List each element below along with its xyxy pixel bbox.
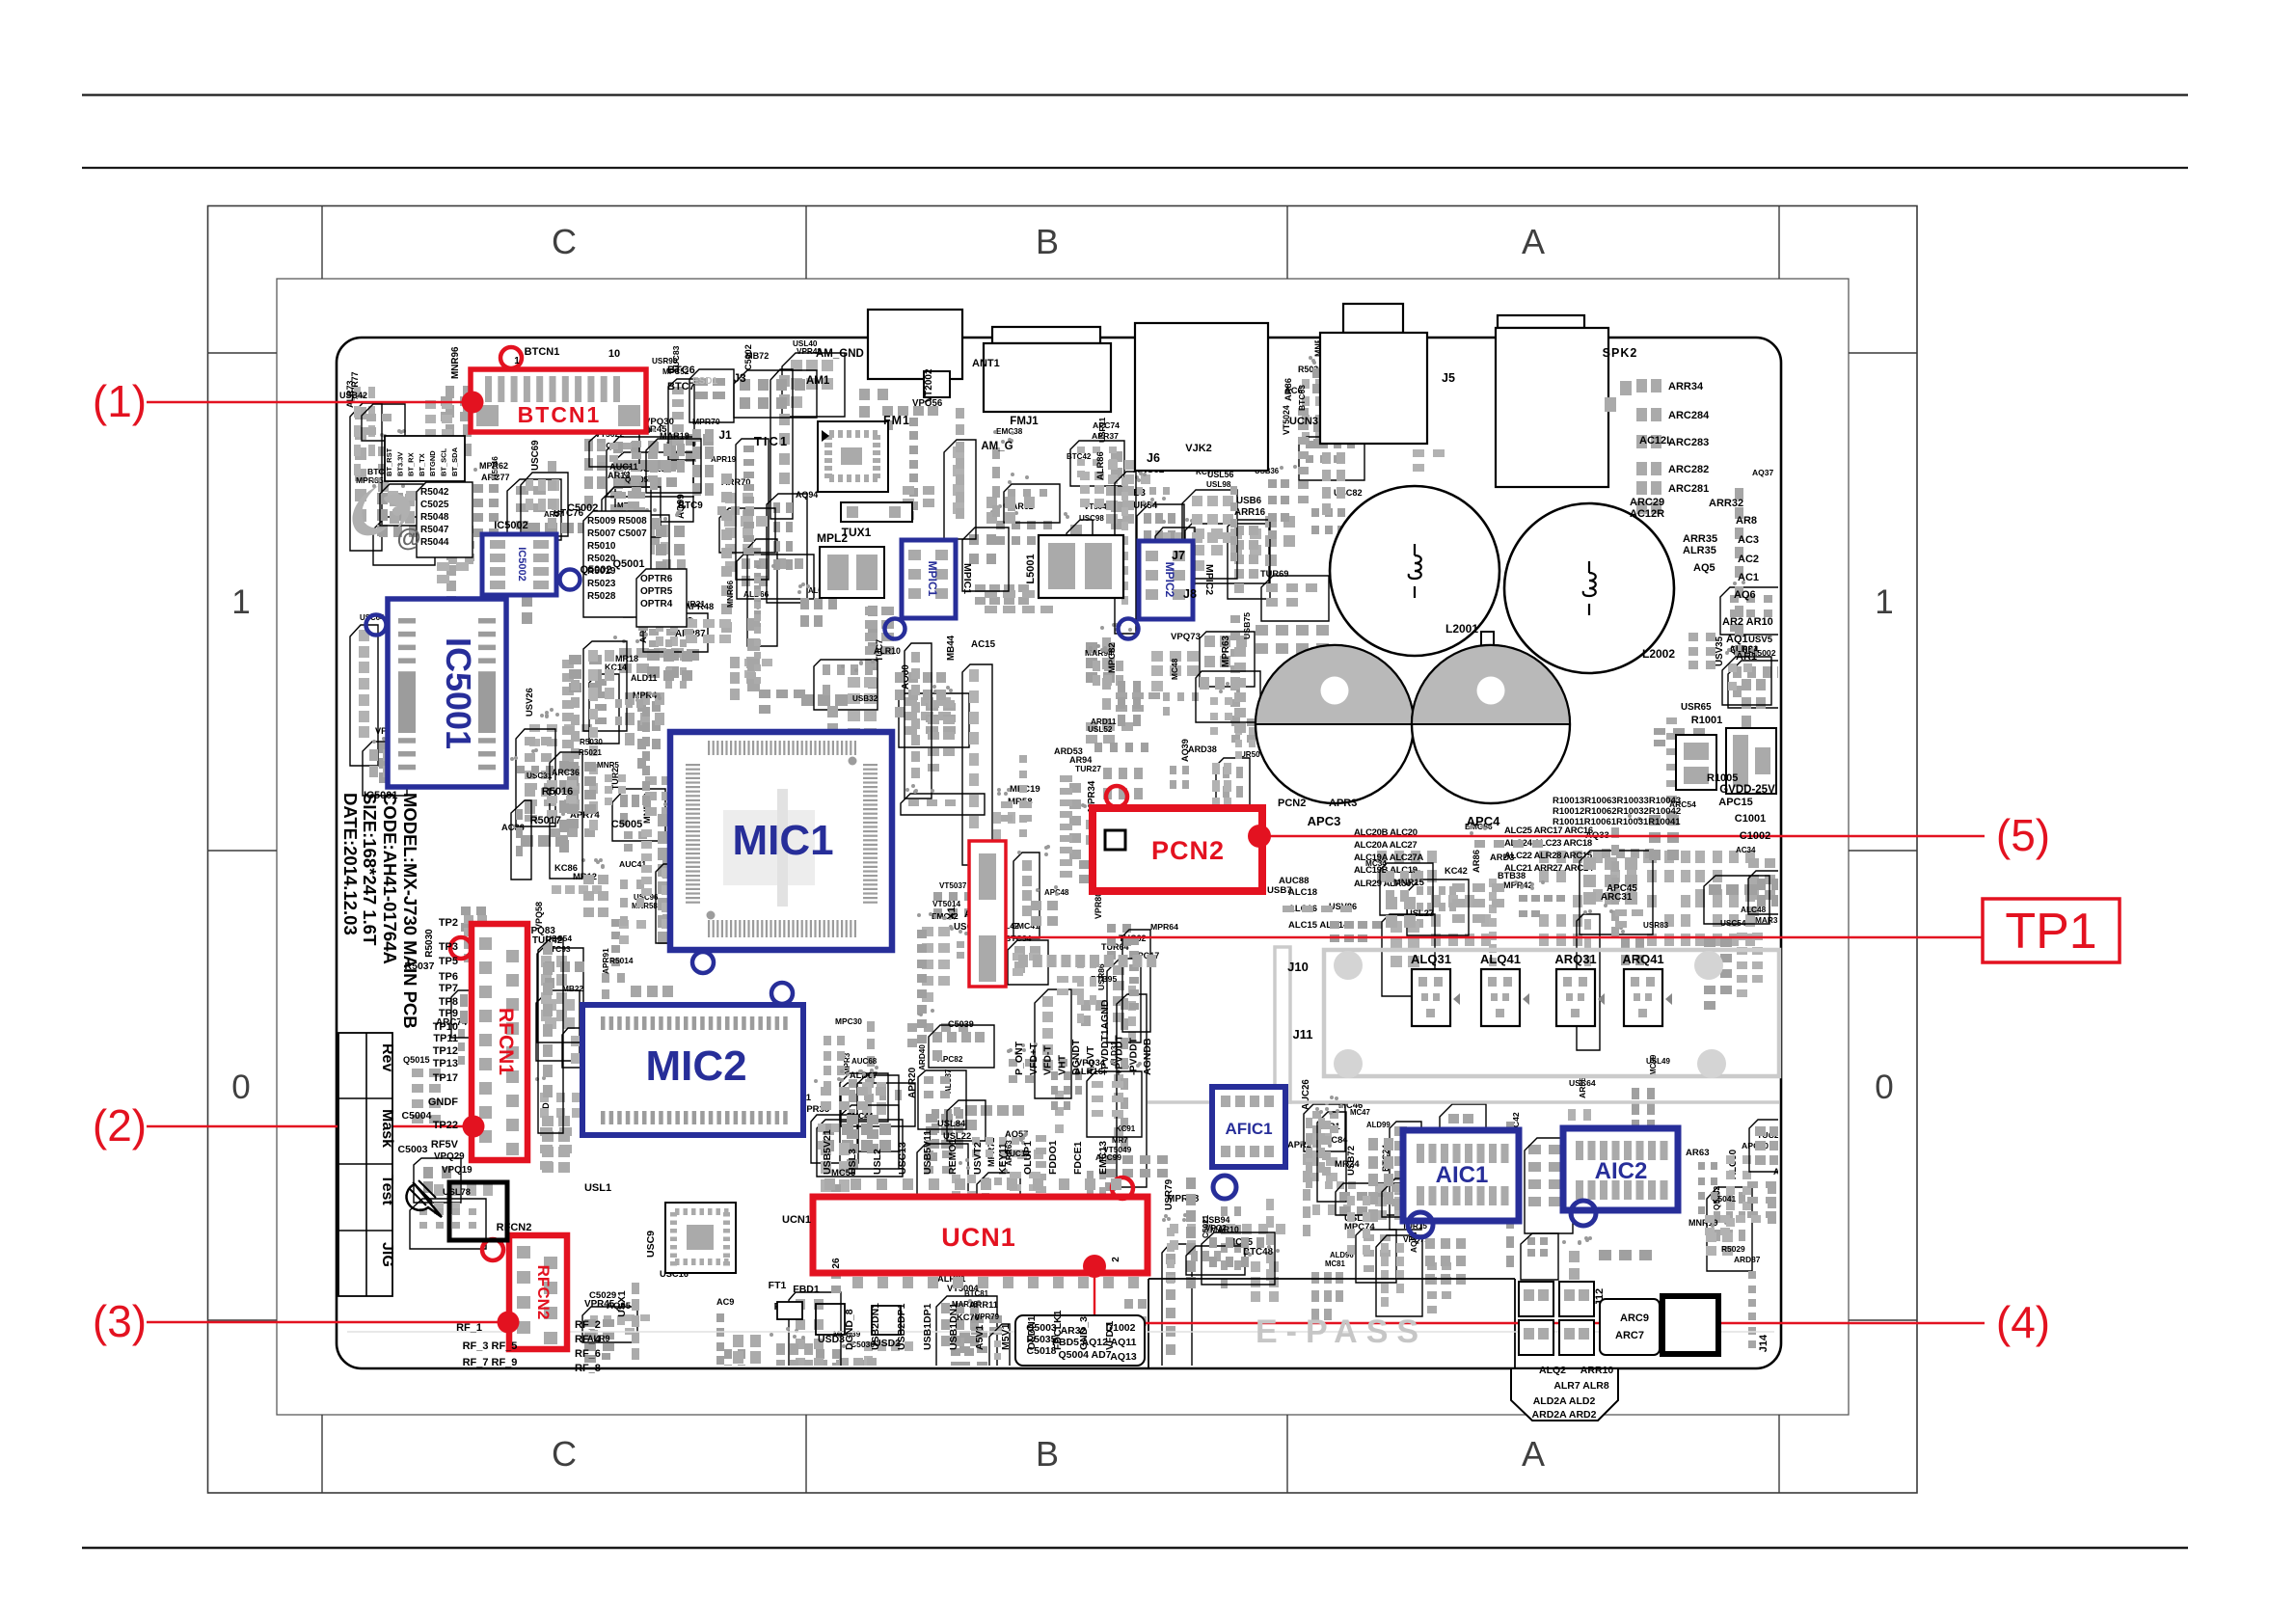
svg-text:C5002: C5002 xyxy=(567,502,598,514)
IC USC9 QFP xyxy=(665,1203,736,1273)
svg-text:R5016: R5016 xyxy=(542,786,573,798)
svg-text:AQ6: AQ6 xyxy=(1734,589,1756,601)
svg-text:J11: J11 xyxy=(1293,1027,1313,1042)
svg-text:MPL2: MPL2 xyxy=(817,531,848,545)
svg-text:(1): (1) xyxy=(93,376,147,426)
board silkscreen step line xyxy=(1148,1278,1515,1280)
svg-text:P_ONT: P_ONT xyxy=(1013,1041,1025,1075)
svg-text:ALD99: ALD99 xyxy=(1366,1121,1391,1129)
svg-text:10: 10 xyxy=(608,348,620,360)
keepout cone symbol xyxy=(407,1184,442,1217)
svg-text:ALC22 ALR28 ARC15: ALC22 ALR28 ARC15 xyxy=(1504,851,1593,861)
svg-text:OPTR4: OPTR4 xyxy=(640,599,673,609)
svg-text:MIC1: MIC1 xyxy=(732,817,833,864)
IC AIC1 xyxy=(1403,1130,1519,1221)
svg-text:AQ5: AQ5 xyxy=(1693,562,1715,574)
svg-text:USV5: USV5 xyxy=(1748,635,1773,645)
svg-text:AR86: AR86 xyxy=(1471,850,1481,873)
svg-text:0: 0 xyxy=(1875,1069,1893,1106)
svg-text:ARC284: ARC284 xyxy=(1668,410,1710,421)
svg-text:ARC36: ARC36 xyxy=(552,768,580,777)
svg-text:J1: J1 xyxy=(718,428,732,442)
svg-text:USB7: USB7 xyxy=(1267,885,1292,896)
svg-text:VHT: VHT xyxy=(1056,1054,1067,1075)
callout 5 leader line xyxy=(1259,835,1985,837)
connector RFCN1 red box xyxy=(472,924,527,1160)
AFIC1 pin circle xyxy=(1213,1176,1236,1199)
TP1 label box xyxy=(1983,899,2120,962)
svg-text:C1001: C1001 xyxy=(1735,813,1766,825)
svg-text:R5048: R5048 xyxy=(420,512,449,523)
svg-text:R5010: R5010 xyxy=(587,541,616,552)
svg-text:C: C xyxy=(552,222,577,261)
svg-text:ALQ41: ALQ41 xyxy=(1480,952,1521,966)
svg-text:BTC42: BTC42 xyxy=(1067,452,1092,461)
svg-text:MPR62: MPR62 xyxy=(479,461,508,471)
shield box bottom right xyxy=(1662,1296,1718,1354)
MPIC2 pin circle xyxy=(1119,619,1139,639)
svg-text:R5030: R5030 xyxy=(424,929,435,958)
svg-text:MNR5: MNR5 xyxy=(597,761,619,770)
PCB board outline xyxy=(337,338,1781,1368)
svg-text:USR83: USR83 xyxy=(1643,921,1669,930)
capacitor APC3 half-shaded circle xyxy=(1256,645,1414,803)
svg-text:OPTR5: OPTR5 xyxy=(640,586,673,597)
svg-text:TP5: TP5 xyxy=(439,956,458,967)
svg-text:C5003: C5003 xyxy=(398,1144,428,1155)
svg-text:R5042: R5042 xyxy=(420,487,449,498)
svg-text:C5025: C5025 xyxy=(420,500,449,510)
svg-text:FDDO1: FDDO1 xyxy=(1047,1140,1059,1175)
svg-text:VFD+T: VFD+T xyxy=(1028,1042,1040,1075)
svg-text:USB94: USB94 xyxy=(1202,1215,1229,1225)
MIC1 pin circle b xyxy=(771,983,793,1004)
zone tick marks right strip xyxy=(1849,352,1917,354)
svg-text:AR63: AR63 xyxy=(1686,1148,1710,1158)
svg-text:TP1: TP1 xyxy=(2005,904,2096,960)
svg-text:MC81: MC81 xyxy=(1325,1259,1345,1268)
svg-text:ARQ41: ARQ41 xyxy=(1622,952,1663,966)
callout 1 dot xyxy=(462,392,484,414)
svg-text:REMO1: REMO1 xyxy=(947,1139,959,1176)
svg-text:PCN2: PCN2 xyxy=(1278,798,1306,809)
svg-text:UCN1: UCN1 xyxy=(941,1223,1016,1252)
svg-text:R1005: R1005 xyxy=(1707,772,1738,784)
svg-text:(4): (4) xyxy=(1996,1297,2050,1347)
svg-text:VFD-T: VFD-T xyxy=(1042,1045,1054,1075)
transformer MPL2 xyxy=(820,547,884,598)
svg-text:A5V1: A5V1 xyxy=(974,1325,986,1350)
svg-text:BTCN1: BTCN1 xyxy=(518,402,602,427)
svg-text:APR48: APR48 xyxy=(685,601,714,611)
svg-text:OLUP1: OLUP1 xyxy=(1022,1141,1034,1175)
svg-text:MNR66: MNR66 xyxy=(725,580,735,608)
svg-text:TP22: TP22 xyxy=(433,1120,458,1131)
svg-text:C: C xyxy=(552,1434,577,1474)
svg-text:USC9: USC9 xyxy=(645,1231,657,1258)
svg-text:ARC77: ARC77 xyxy=(481,473,510,482)
svg-text:AC15: AC15 xyxy=(971,639,996,650)
svg-text:R5037: R5037 xyxy=(405,961,435,972)
connector SPK2 xyxy=(1496,328,1608,487)
IC TIC1 QFP xyxy=(818,421,888,492)
svg-text:USL52: USL52 xyxy=(1088,725,1113,734)
IC AFIC1 xyxy=(1212,1087,1285,1167)
inner drawing frame xyxy=(277,279,1849,1415)
svg-text:AM_G: AM_G xyxy=(981,441,1013,452)
svg-text:@: @ xyxy=(396,523,420,552)
svg-text:J14: J14 xyxy=(1758,1334,1769,1352)
svg-text:MC48: MC48 xyxy=(1170,658,1179,680)
svg-text:J10: J10 xyxy=(1287,960,1309,974)
svg-text:VT5037: VT5037 xyxy=(939,881,967,890)
J12 pad squares xyxy=(1519,1282,1553,1316)
svg-text:RF_7 RF_9: RF_7 RF_9 xyxy=(463,1357,518,1368)
svg-text:AC2: AC2 xyxy=(1738,554,1759,565)
svg-text:BTGND: BTGND xyxy=(428,450,437,476)
svg-text:A: A xyxy=(1522,222,1545,261)
svg-text:(3): (3) xyxy=(93,1296,147,1346)
svg-text:RFCN1: RFCN1 xyxy=(495,1008,517,1075)
BTCN1 pin1 circle xyxy=(500,347,522,368)
svg-text:Test: Test xyxy=(379,1175,395,1205)
svg-text:ALR35: ALR35 xyxy=(1683,545,1716,556)
TP1 leader line xyxy=(1006,936,1983,938)
svg-text:FDCLK1: FDCLK1 xyxy=(1052,1310,1064,1350)
svg-text:(5): (5) xyxy=(1996,810,2050,860)
RFCN1 pin1 circle xyxy=(450,937,472,959)
svg-text:ARC283: ARC283 xyxy=(1668,437,1709,448)
svg-text:R5023: R5023 xyxy=(587,579,616,589)
svg-text:ALC18: ALC18 xyxy=(1288,887,1317,898)
svg-text:TP10: TP10 xyxy=(433,1021,458,1033)
svg-text:ALD2A ALD2: ALD2A ALD2 xyxy=(1533,1395,1596,1407)
svg-text:MAR10: MAR10 xyxy=(1210,1225,1239,1234)
svg-text:AR13: AR13 xyxy=(608,471,631,480)
svg-text:USX1: USX1 xyxy=(616,1290,628,1317)
svg-text:(2): (2) xyxy=(93,1100,147,1150)
svg-text:VT2002: VT2002 xyxy=(924,368,934,402)
svg-text:MC34: MC34 xyxy=(1365,859,1387,868)
svg-text:RFCN2: RFCN2 xyxy=(534,1265,553,1320)
crystal X1 red box xyxy=(969,841,1006,987)
connector FMJ1 xyxy=(984,343,1111,412)
callout 5 dot xyxy=(1248,825,1271,848)
svg-text:MIC2: MIC2 xyxy=(645,1042,746,1090)
svg-text:USC98: USC98 xyxy=(1079,514,1104,523)
connector SPK2 tab xyxy=(1498,315,1584,328)
svg-text:R10013R10063R10033R10043: R10013R10063R10033R10043 xyxy=(1553,796,1681,806)
svg-text:R5028: R5028 xyxy=(587,591,616,602)
callout 2 dot xyxy=(463,1116,485,1138)
svg-text:APC45: APC45 xyxy=(1607,883,1637,894)
svg-text:ALR10: ALR10 xyxy=(874,646,901,656)
svg-text:SPK2: SPK2 xyxy=(1603,346,1638,360)
svg-text:TP11: TP11 xyxy=(433,1033,458,1044)
svg-text:USL2: USL2 xyxy=(872,1149,883,1175)
svg-text:MPR64: MPR64 xyxy=(1150,922,1178,932)
R1001 block xyxy=(1676,735,1716,790)
IC IC5002 xyxy=(482,534,556,595)
svg-text:RF_1: RF_1 xyxy=(456,1322,482,1334)
svg-text:APC4: APC4 xyxy=(1467,814,1500,828)
svg-text:RF_3 RF_5: RF_3 RF_5 xyxy=(463,1340,518,1352)
bottom page rule xyxy=(82,1547,2188,1550)
svg-text:USD2: USD2 xyxy=(874,1338,901,1349)
svg-text:APR19: APR19 xyxy=(711,455,737,464)
svg-text:EMC38: EMC38 xyxy=(996,427,1023,436)
connector FMJ1 tab xyxy=(992,327,1100,343)
svg-text:KC86: KC86 xyxy=(554,862,578,873)
svg-text:TP17: TP17 xyxy=(433,1072,458,1084)
svg-text:BTC81: BTC81 xyxy=(964,1289,989,1298)
svg-text:X1: X1 xyxy=(946,907,958,919)
svg-text:BT_RX: BT_RX xyxy=(407,452,416,476)
svg-text:USC69: USC69 xyxy=(530,440,541,471)
svg-text:1: 1 xyxy=(1875,583,1893,621)
svg-text:MPIC2: MPIC2 xyxy=(1203,564,1215,595)
svg-text:TP9: TP9 xyxy=(439,1008,458,1019)
svg-text:MODEL:MX-J730 MAIN PCB: MODEL:MX-J730 MAIN PCB xyxy=(400,793,420,1029)
svg-text:MAR19: MAR19 xyxy=(660,431,689,441)
svg-text:USV26: USV26 xyxy=(524,688,534,717)
svg-text:USC54: USC54 xyxy=(1720,919,1746,928)
svg-text:AQ37: AQ37 xyxy=(1752,468,1773,477)
svg-text:ARD11: ARD11 xyxy=(1091,717,1117,726)
svg-text:1: 1 xyxy=(231,583,250,621)
svg-text:BTCN1: BTCN1 xyxy=(525,346,560,358)
svg-text:EMC13: EMC13 xyxy=(1097,1141,1109,1175)
IC5001 pin1 circle xyxy=(366,615,387,636)
svg-text:L5001: L5001 xyxy=(1025,554,1037,583)
callout 3 dot xyxy=(498,1312,520,1334)
svg-text:BTC6: BTC6 xyxy=(667,365,695,376)
AIC1 pin circle xyxy=(1408,1212,1433,1237)
svg-text:ARD87: ARD87 xyxy=(1734,1255,1761,1264)
IC IC5001 xyxy=(388,599,506,787)
callout 3 leader line xyxy=(147,1321,508,1323)
svg-text:GND_3: GND_3 xyxy=(1078,1316,1090,1350)
shield can square xyxy=(449,1182,507,1240)
svg-text:ARR10: ARR10 xyxy=(1580,1365,1614,1376)
svg-text:ARD3: ARD3 xyxy=(1490,852,1515,862)
zone tick marks left strip xyxy=(208,352,278,354)
svg-text:ESD1: ESD1 xyxy=(692,376,718,387)
svg-text:Rev: Rev xyxy=(379,1043,395,1071)
svg-text:TIC1: TIC1 xyxy=(754,434,789,448)
pad grid arrays below capacitors xyxy=(1377,851,1387,863)
svg-text:ALR86: ALR86 xyxy=(1094,451,1105,480)
svg-text:MPR42: MPR42 xyxy=(1503,880,1533,890)
svg-text:AC12L: AC12L xyxy=(1639,435,1673,447)
svg-text:R5029: R5029 xyxy=(1721,1244,1745,1254)
svg-text:USB42: USB42 xyxy=(339,391,367,400)
svg-text:BT3.3V: BT3.3V xyxy=(395,452,404,476)
svg-text:AQ13: AQ13 xyxy=(1110,1351,1137,1363)
svg-text:VFD-1: VFD-1 xyxy=(1104,1321,1116,1350)
svg-text:R10011R10061R10031R10041: R10011R10061R10031R10041 xyxy=(1553,817,1681,827)
svg-text:AR8: AR8 xyxy=(1736,515,1757,527)
UCN1 pin1 circle xyxy=(1112,1177,1133,1199)
board bottom tab outline J13 xyxy=(1511,1368,1618,1421)
svg-text:USC64: USC64 xyxy=(1569,1078,1596,1088)
svg-text:J6: J6 xyxy=(1147,451,1160,465)
component pad texture field xyxy=(610,491,622,499)
svg-text:1: 1 xyxy=(514,356,520,366)
svg-text:MPC82: MPC82 xyxy=(1107,642,1118,673)
svg-text:GVDD-25V: GVDD-25V xyxy=(1719,784,1775,796)
svg-text:USC13: USC13 xyxy=(897,1142,908,1175)
svg-text:MPIC1: MPIC1 xyxy=(961,563,973,594)
svg-text:ALC20A ALC27: ALC20A ALC27 xyxy=(1354,840,1417,851)
svg-text:IC5002: IC5002 xyxy=(516,547,527,581)
svg-text:MPIC2: MPIC2 xyxy=(1163,562,1176,598)
svg-text:OLDN1: OLDN1 xyxy=(1026,1315,1038,1350)
svg-text:BT_TX: BT_TX xyxy=(418,453,426,476)
IC MIC2 xyxy=(582,1005,803,1135)
svg-text:AC9: AC9 xyxy=(716,1297,734,1307)
svg-text:KEY11: KEY11 xyxy=(997,1143,1009,1175)
svg-text:FM1: FM1 xyxy=(883,414,910,427)
svg-text:USB1DP1: USB1DP1 xyxy=(922,1303,933,1350)
connector UCN1 red box xyxy=(813,1197,1148,1273)
svg-text:KC42: KC42 xyxy=(1445,866,1468,876)
svg-text:BTC63: BTC63 xyxy=(1297,385,1307,411)
svg-text:USL1: USL1 xyxy=(584,1182,611,1194)
callout 2 leader line xyxy=(147,1125,473,1127)
svg-text:TP2: TP2 xyxy=(439,917,458,929)
svg-text:AGNDB: AGNDB xyxy=(1142,1038,1153,1075)
RFCN2 pin1 circle xyxy=(482,1239,503,1260)
connector J5 xyxy=(1320,333,1427,444)
svg-text:OPTR6: OPTR6 xyxy=(640,574,673,584)
svg-text:J8: J8 xyxy=(1183,587,1197,601)
svg-text:L2002: L2002 xyxy=(1642,647,1675,661)
svg-text:TP8: TP8 xyxy=(439,996,458,1008)
svg-text:ARC9: ARC9 xyxy=(1620,1313,1649,1324)
connector AM_GND J3 xyxy=(868,310,962,379)
svg-text:AC12R: AC12R xyxy=(1630,508,1664,520)
svg-text:USVT2: USVT2 xyxy=(972,1142,984,1175)
svg-text:B: B xyxy=(1036,222,1059,261)
capacitor APC4 half-shaded circle xyxy=(1412,645,1570,803)
svg-text:ARD38: ARD38 xyxy=(1188,744,1217,754)
svg-text:J5: J5 xyxy=(1442,371,1455,385)
svg-text:J3: J3 xyxy=(733,371,746,385)
svg-text:R5009 R5008: R5009 R5008 xyxy=(587,516,647,527)
svg-text:ALC19A ALC27A: ALC19A ALC27A xyxy=(1354,853,1423,863)
svg-text:AIC1: AIC1 xyxy=(1436,1162,1489,1188)
svg-text:ARR32: ARR32 xyxy=(1709,498,1743,509)
svg-text:R5030: R5030 xyxy=(580,738,603,746)
connector RFCN2 red box xyxy=(509,1235,567,1349)
svg-text:AIC2: AIC2 xyxy=(1595,1158,1648,1184)
ARC9 ARC7 label box xyxy=(1600,1299,1660,1355)
svg-text:BTC9: BTC9 xyxy=(678,501,703,511)
svg-text:AUC11: AUC11 xyxy=(609,462,638,472)
svg-text:ARD40: ARD40 xyxy=(918,1044,927,1070)
svg-text:MPC30: MPC30 xyxy=(835,1016,862,1026)
svg-text:C5005: C5005 xyxy=(611,819,642,830)
svg-text:BT_SCL: BT_SCL xyxy=(440,447,448,476)
svg-text:USL98: USL98 xyxy=(1206,480,1231,489)
svg-text:AC1: AC1 xyxy=(1738,572,1759,583)
svg-text:MB72: MB72 xyxy=(745,351,769,361)
svg-text:MB44: MB44 xyxy=(946,635,957,661)
svg-text:J7: J7 xyxy=(1172,549,1185,562)
svg-text:AQ1: AQ1 xyxy=(1726,634,1748,645)
svg-text:BT_SDA: BT_SDA xyxy=(450,447,459,476)
AIC2 pin circle xyxy=(1571,1201,1596,1226)
zone tick marks top strip xyxy=(321,206,323,280)
svg-text:M5V1: M5V1 xyxy=(1000,1323,1012,1350)
top page rule 1 xyxy=(82,94,2188,95)
IC5002 pin1 circle xyxy=(560,570,581,590)
svg-text:FMJ1: FMJ1 xyxy=(1010,416,1039,427)
Q5003 label box xyxy=(1015,1315,1145,1366)
svg-text:AUC68: AUC68 xyxy=(851,1057,878,1066)
svg-text:R5007 C5007: R5007 C5007 xyxy=(587,528,647,539)
svg-text:FT1: FT1 xyxy=(769,1280,787,1291)
svg-text:AR1: AR1 xyxy=(1736,651,1757,663)
svg-text:ALD11: ALD11 xyxy=(631,673,657,683)
svg-text:AM_GND: AM_GND xyxy=(816,348,864,360)
svg-text:ALQ2: ALQ2 xyxy=(1539,1365,1566,1376)
svg-text:RF_2: RF_2 xyxy=(575,1319,601,1331)
svg-text:MPR63: MPR63 xyxy=(1221,636,1231,667)
svg-text:APR3: APR3 xyxy=(1329,798,1357,809)
svg-text:MPR70: MPR70 xyxy=(692,417,720,426)
svg-text:ARR11: ARR11 xyxy=(969,1300,998,1310)
svg-text:TP3: TP3 xyxy=(439,941,458,953)
svg-text:APC3: APC3 xyxy=(1308,814,1341,828)
IC MPIC2 xyxy=(1139,541,1193,619)
svg-text:Q5015: Q5015 xyxy=(403,1055,430,1065)
IC MIC1 xyxy=(670,732,892,950)
svg-text:SIZE:168*247 1.6T: SIZE:168*247 1.6T xyxy=(360,793,380,946)
svg-text:PCN2: PCN2 xyxy=(1151,836,1225,865)
svg-text:VPQ29: VPQ29 xyxy=(434,1151,465,1162)
svg-text:BT_RST: BT_RST xyxy=(385,447,393,476)
svg-text:E-PASS: E-PASS xyxy=(1256,1313,1427,1350)
connector PCN2 red box xyxy=(1093,808,1262,891)
IC MPIC1 xyxy=(902,540,956,618)
callout 1 leader line xyxy=(147,401,473,403)
MIC1 pin circle a xyxy=(692,952,714,973)
svg-text:ANT1: ANT1 xyxy=(972,358,1000,369)
svg-text:JIG: JIG xyxy=(379,1242,395,1267)
svg-text:USB5V11: USB5V11 xyxy=(922,1130,933,1175)
inductor L2001 circle xyxy=(1330,486,1499,656)
svg-text:C5039: C5039 xyxy=(948,1019,974,1029)
outer drawing frame xyxy=(208,206,1918,1494)
svg-text:AR2 AR10: AR2 AR10 xyxy=(1722,616,1773,628)
svg-text:MNR96: MNR96 xyxy=(450,346,461,379)
svg-text:VJK2: VJK2 xyxy=(1185,443,1212,454)
svg-text:BTB38: BTB38 xyxy=(1498,871,1526,880)
svg-text:MC47: MC47 xyxy=(1350,1108,1370,1117)
svg-text:ARC282: ARC282 xyxy=(1668,464,1709,475)
svg-text:RFCN2: RFCN2 xyxy=(497,1222,532,1233)
svg-text:+PVDDT: +PVDDT xyxy=(1114,1035,1125,1075)
svg-text:R1001: R1001 xyxy=(1691,715,1722,726)
svg-text:AC3: AC3 xyxy=(1738,534,1759,546)
svg-text:UCN1: UCN1 xyxy=(782,1214,811,1226)
svg-text:ARR16: ARR16 xyxy=(1234,507,1266,518)
svg-text:MPIC1: MPIC1 xyxy=(926,561,939,597)
svg-text:R5014: R5014 xyxy=(609,956,634,965)
ALQ31 ALQ41 ARQ31 ARQ41 components xyxy=(1412,969,1450,1026)
